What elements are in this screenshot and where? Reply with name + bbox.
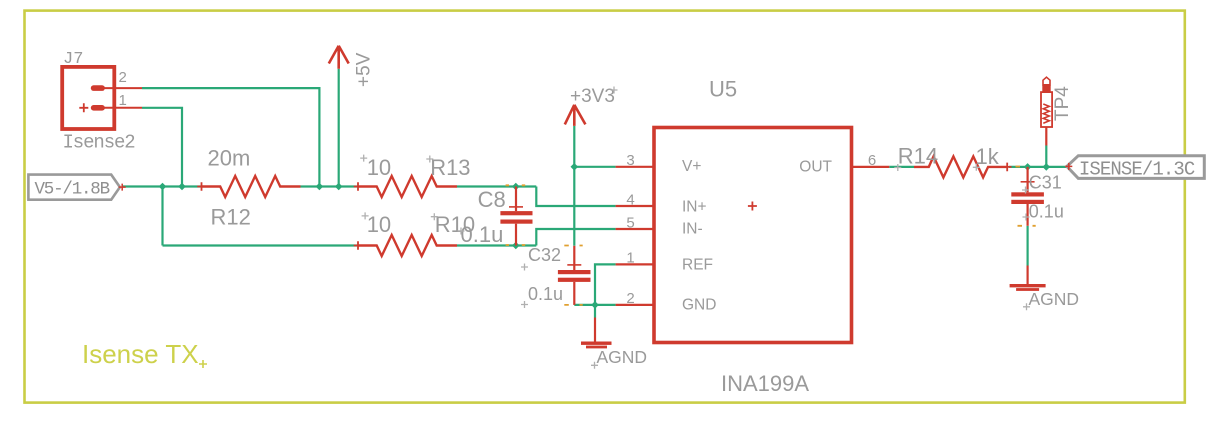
pin connect mark R14 right	[1016, 166, 1021, 168]
origin cross R14	[894, 164, 901, 171]
wire +3V3 drop to C32	[573, 126, 575, 246]
svg-text:TP4: TP4	[1052, 86, 1073, 121]
wire J7 pin1 to main row	[142, 108, 182, 187]
op-amp U5 INA199A	[616, 128, 890, 343]
wire GND branch	[574, 304, 615, 306]
pin connect marks C8	[506, 185, 526, 245]
junction +3V3 / V+	[571, 163, 579, 171]
svg-text:ISENSE/1.3C: ISENSE/1.3C	[1079, 158, 1195, 180]
origin cross C31 name	[1022, 187, 1029, 194]
svg-text:U5: U5	[709, 77, 737, 102]
connector J7	[62, 67, 142, 129]
svg-text:INA199A: INA199A	[721, 371, 809, 396]
power +5V	[329, 46, 375, 87]
origin cross C31 value	[1023, 214, 1030, 221]
svg-text:GND: GND	[682, 297, 716, 314]
resistor R14	[914, 156, 1012, 177]
wire J7 pin2 to main row	[142, 88, 319, 186]
svg-text:R14: R14	[898, 144, 938, 169]
wire C8 top jog to IN+	[536, 187, 615, 207]
pin connect marks C32	[564, 246, 582, 305]
svg-text:+5V: +5V	[354, 52, 375, 87]
svg-text:6: 6	[868, 152, 876, 169]
origin cross C32 value	[521, 301, 528, 308]
origin cross 1k	[973, 164, 980, 171]
svg-text:20m: 20m	[208, 146, 251, 171]
resistor R13	[354, 176, 457, 197]
svg-text:C8: C8	[478, 187, 506, 212]
junction at V5 flag split	[159, 183, 167, 191]
wire +5V drop	[338, 69, 340, 187]
wire C8 bottom jog to IN-	[536, 229, 615, 246]
svg-text:V+: V+	[682, 158, 701, 175]
origin cross R13 name	[426, 156, 433, 163]
svg-text:1k: 1k	[976, 144, 1000, 169]
wire TP4 drop	[1045, 146, 1047, 167]
svg-text:10: 10	[367, 212, 391, 237]
junction +5V drop	[335, 183, 343, 191]
ground AGND (C31)	[1010, 266, 1046, 291]
origin cross Isense TX	[199, 360, 207, 368]
svg-text:IN-: IN-	[682, 221, 703, 238]
origin cross R13 value	[360, 155, 367, 162]
resistor R12	[197, 176, 300, 197]
svg-text:R13: R13	[430, 155, 470, 180]
svg-text:5: 5	[626, 214, 634, 231]
svg-text:10: 10	[367, 155, 391, 180]
pin connect marks C31	[1018, 225, 1036, 227]
svg-text:1: 1	[626, 250, 634, 267]
svg-text:0.1u: 0.1u	[461, 222, 504, 247]
junction C8 bottom	[512, 242, 520, 250]
svg-text:AGND: AGND	[1029, 289, 1080, 309]
ground AGND (U5)	[581, 318, 612, 349]
svg-text:0.1u: 0.1u	[528, 284, 563, 304]
svg-text:C32: C32	[528, 245, 561, 265]
svg-text:2: 2	[119, 69, 127, 86]
origin cross R10 value	[362, 212, 369, 219]
svg-text:R12: R12	[211, 205, 251, 230]
wire main row from V5 flag to C8 jog	[122, 185, 536, 187]
resistor R10	[354, 235, 457, 256]
junction J7 pin1 drop	[178, 183, 186, 191]
junction TP4 drop	[1043, 163, 1051, 171]
origin cross C8 value	[458, 228, 465, 235]
svg-text:REF: REF	[682, 257, 713, 274]
junction C31 top	[1024, 163, 1032, 171]
wire REF branch	[595, 264, 616, 305]
origin cross AGND (U5)	[591, 362, 598, 369]
junction GND / C32	[591, 301, 599, 309]
wire lower row to R10 and C8 bottom	[163, 187, 537, 246]
capacitor C31	[1011, 167, 1044, 226]
origin cross R10 name	[431, 213, 438, 220]
capacitor C32	[558, 246, 591, 305]
svg-text:3: 3	[626, 152, 634, 169]
capacitor C8	[500, 187, 532, 246]
svg-text:IN+: IN+	[682, 199, 707, 216]
svg-text:2: 2	[626, 290, 634, 307]
power +3V3	[565, 86, 618, 126]
wire OUT to R14	[889, 166, 914, 168]
svg-text:Isense TX: Isense TX	[82, 339, 199, 369]
svg-text:+3V3: +3V3	[570, 86, 615, 107]
wire to AGND below junction	[594, 305, 596, 318]
origin cross AGND (C31)	[1023, 303, 1030, 310]
wire V+ branch	[574, 166, 615, 168]
test point TP4	[1041, 77, 1052, 145]
svg-text:4: 4	[626, 191, 634, 208]
svg-text:Isense2: Isense2	[63, 131, 136, 153]
wire C31 to AGND	[1026, 226, 1028, 266]
svg-text:J7: J7	[63, 50, 83, 69]
net flag ISENSE/1.3C	[1065, 156, 1204, 181]
junction J7 pin2 drop	[316, 183, 324, 191]
svg-text:AGND: AGND	[597, 347, 648, 367]
svg-text:V5-/1.8B: V5-/1.8B	[35, 180, 110, 200]
svg-text:C31: C31	[1029, 173, 1062, 193]
junction C8 top	[512, 183, 520, 191]
net flag V5-/1.8B	[28, 175, 125, 200]
svg-text:OUT: OUT	[799, 159, 832, 176]
wire R14 to ISENSE flag	[1009, 166, 1067, 168]
origin cross C32 name	[521, 264, 528, 271]
svg-text:0.1u: 0.1u	[1029, 202, 1064, 222]
svg-text:1: 1	[119, 92, 127, 109]
